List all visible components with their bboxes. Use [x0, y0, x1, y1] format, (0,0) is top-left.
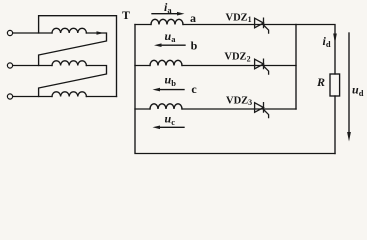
svg-text:VDZ3: VDZ3 — [226, 96, 252, 108]
svg-text:VDZ2: VDZ2 — [224, 52, 250, 64]
svg-text:ua: ua — [165, 29, 177, 44]
svg-text:uc: uc — [165, 112, 176, 127]
svg-text:R: R — [316, 75, 325, 89]
svg-text:a: a — [190, 11, 196, 25]
svg-text:ub: ub — [165, 73, 177, 88]
svg-text:VDZ1: VDZ1 — [226, 12, 252, 24]
svg-text:ud: ud — [352, 83, 364, 98]
svg-text:T: T — [122, 8, 130, 22]
svg-text:b: b — [191, 39, 198, 53]
svg-text:ia: ia — [164, 0, 172, 15]
svg-text:id: id — [323, 34, 331, 49]
svg-text:c: c — [191, 82, 197, 96]
